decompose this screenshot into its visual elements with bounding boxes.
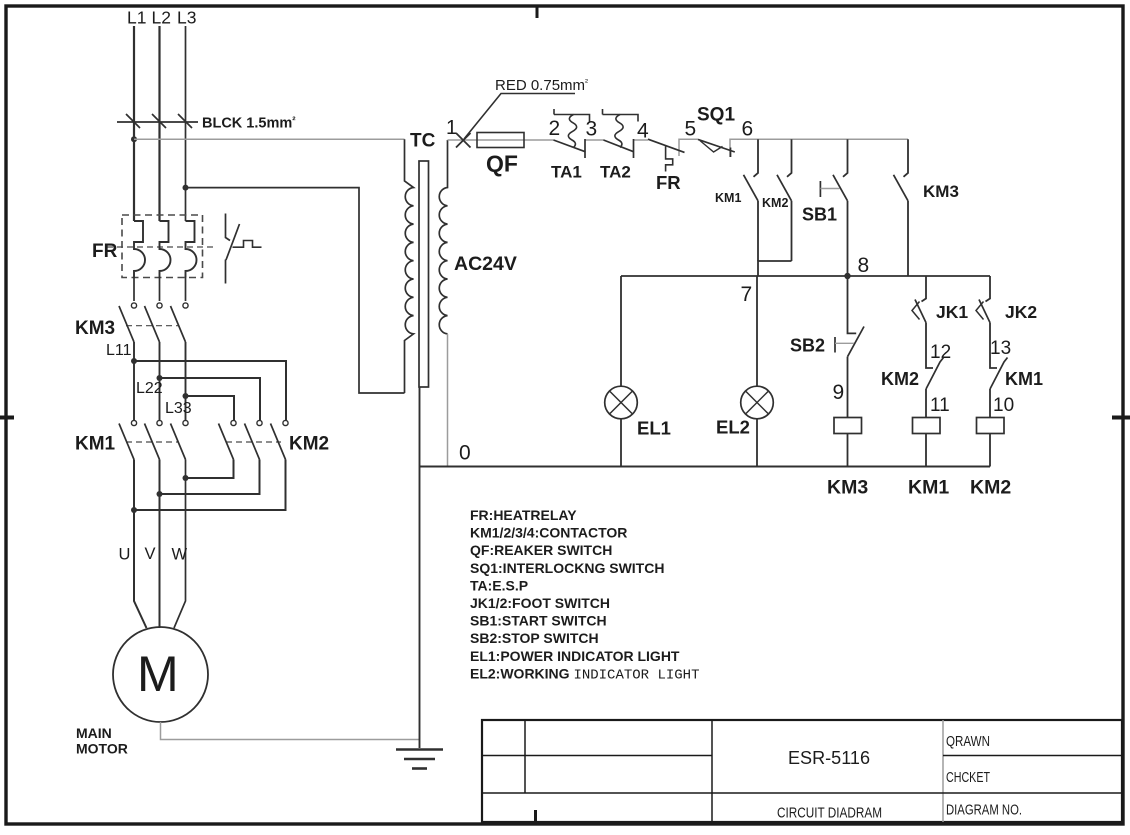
- wire L11 to KM2: [134, 361, 286, 421]
- svg-text:EL2:WORKING INDICATOR LIGHT: EL2:WORKING INDICATOR LIGHT: [470, 665, 699, 683]
- svg-text:SQ1:INTERLOCKNG SWITCH: SQ1:INTERLOCKNG SWITCH: [470, 560, 664, 576]
- svg-text:11: 11: [930, 395, 950, 416]
- node L3: [177, 8, 196, 28]
- wire L3 to TC primary: [186, 188, 405, 393]
- coil KM3: [827, 418, 868, 499]
- label QRAWN: [946, 734, 990, 750]
- svg-text:QRAWN: QRAWN: [946, 734, 990, 750]
- svg-text:KM3: KM3: [923, 182, 959, 201]
- svg-text:7: 7: [741, 283, 753, 306]
- breaker QF: [477, 133, 524, 177]
- svg-text:L11: L11: [106, 342, 132, 359]
- svg-text:EL1: EL1: [637, 418, 671, 439]
- pin 13: [990, 338, 1011, 359]
- svg-text:JK1/2:FOOT SWITCH: JK1/2:FOOT SWITCH: [470, 595, 610, 611]
- e-stop TA1: [551, 109, 590, 182]
- svg-text:FR: FR: [656, 172, 681, 193]
- label DIAGRAM NO.: [946, 802, 1022, 819]
- lamp EL2: [716, 276, 773, 467]
- svg-text:KM1: KM1: [908, 477, 949, 499]
- svg-text:5: 5: [685, 118, 697, 141]
- svg-text:BLCK 1.5mm²: BLCK 1.5mm²: [202, 116, 296, 132]
- thermal relay FR heaters: [92, 215, 217, 278]
- legend text: [470, 507, 699, 683]
- node L1: [127, 8, 146, 28]
- node L11: [106, 342, 137, 364]
- label W: [172, 546, 188, 564]
- contact KM1 NC: [990, 323, 1043, 389]
- svg-text:KM1: KM1: [715, 191, 741, 205]
- svg-text:TA:E.S.P: TA:E.S.P: [470, 577, 528, 593]
- svg-text:KM1: KM1: [1005, 369, 1043, 389]
- wire KM1 KM2 join: [758, 261, 792, 276]
- wire bus 7-8: [621, 275, 990, 277]
- wire phase L3: [185, 26, 187, 221]
- svg-text:L33: L33: [165, 400, 192, 417]
- stop switch SB2: [790, 276, 864, 418]
- svg-text:FR: FR: [92, 241, 118, 262]
- svg-text:KM2: KM2: [970, 477, 1011, 499]
- start switch SB1: [802, 139, 848, 276]
- wire KM2 output crossover V: [157, 460, 260, 498]
- title block: [482, 720, 1122, 822]
- transformer TC: [405, 131, 448, 394]
- wire W to motor: [174, 460, 186, 629]
- svg-text:CIRCUIT DIADRAM: CIRCUIT DIADRAM: [777, 806, 882, 822]
- svg-text:KM2: KM2: [289, 434, 329, 455]
- svg-text:3: 3: [586, 118, 598, 141]
- svg-text:10: 10: [993, 395, 1014, 416]
- svg-text:EL1:POWER INDICATOR LIGHT: EL1:POWER INDICATOR LIGHT: [470, 648, 680, 664]
- wire phase L1: [133, 26, 135, 221]
- cable marker BLCK 1.5mm2: [117, 114, 296, 132]
- svg-text:L2: L2: [152, 8, 171, 28]
- wire motor to ground: [161, 722, 420, 740]
- svg-text:4: 4: [637, 120, 649, 143]
- svg-text:KM3: KM3: [75, 318, 115, 339]
- e-stop TA2: [600, 109, 638, 182]
- svg-text:SB2:STOP SWITCH: SB2:STOP SWITCH: [470, 630, 599, 646]
- label MAIN MOTOR: [76, 725, 128, 757]
- ground: [396, 750, 443, 769]
- svg-text:MOTOR: MOTOR: [76, 741, 128, 757]
- contactor KM2 main contacts: [219, 420, 330, 459]
- junction L3: [183, 185, 189, 191]
- svg-text:12: 12: [930, 342, 951, 363]
- svg-text:SB2: SB2: [790, 336, 825, 356]
- svg-text:L22: L22: [136, 380, 163, 397]
- label V: [145, 545, 156, 563]
- wire U to motor: [134, 460, 147, 629]
- motor M: [113, 627, 208, 722]
- label CHCKET: [946, 770, 990, 786]
- svg-text:13: 13: [990, 338, 1011, 359]
- svg-text:L3: L3: [177, 8, 196, 28]
- svg-text:L1: L1: [127, 8, 146, 28]
- contact KM1 NO: [715, 139, 758, 261]
- contactor KM3 main contacts: [75, 278, 188, 421]
- pin 11: [930, 395, 950, 416]
- label ESR-5116: [788, 747, 870, 768]
- wire L1 to TC primary: [134, 138, 405, 140]
- coil KM2: [970, 389, 1011, 499]
- wire phase L2: [158, 26, 160, 221]
- svg-text:SB1:START SWITCH: SB1:START SWITCH: [470, 613, 607, 629]
- svg-text:JK2: JK2: [1005, 302, 1037, 322]
- svg-text:DIAGRAM NO.: DIAGRAM NO.: [946, 802, 1022, 819]
- label U: [119, 546, 131, 564]
- wire TC secondary to 0 bus: [447, 334, 449, 467]
- svg-text:1: 1: [446, 117, 457, 139]
- wire 0 bus: [420, 466, 991, 468]
- label RED 0.75mm2: [464, 77, 588, 139]
- svg-text:KM3: KM3: [827, 477, 868, 499]
- svg-text:RED 0.75mm²: RED 0.75mm²: [495, 77, 588, 94]
- pin 4: [637, 120, 649, 143]
- svg-text:AC24V: AC24V: [454, 253, 517, 275]
- svg-text:MAIN: MAIN: [76, 725, 112, 741]
- pin 9: [833, 381, 845, 404]
- label CIRCUIT DIADRAM: [777, 806, 882, 822]
- svg-text:2: 2: [549, 117, 561, 140]
- pin 2: [549, 117, 561, 140]
- node L33: [165, 393, 192, 417]
- ground wire: [419, 387, 421, 748]
- node L2: [152, 8, 171, 28]
- wire KM2 output crossover W: [183, 460, 234, 482]
- node 7: [741, 283, 753, 306]
- junction L1: [131, 136, 137, 142]
- svg-text:CHCKET: CHCKET: [946, 770, 990, 786]
- svg-text:6: 6: [742, 118, 754, 141]
- svg-text:ESR-5116: ESR-5116: [788, 747, 870, 768]
- wire KM2 output crossover U: [131, 460, 286, 514]
- pin 10: [993, 395, 1014, 416]
- svg-text:W: W: [172, 546, 188, 564]
- foot switch JK1: [912, 276, 968, 323]
- svg-text:TA2: TA2: [600, 163, 631, 182]
- FR aux contact: [226, 214, 262, 284]
- svg-text:KM2: KM2: [881, 369, 919, 389]
- lamp EL1: [605, 276, 671, 467]
- wire L22 to KM2: [160, 378, 261, 421]
- svg-text:TA1: TA1: [551, 163, 582, 182]
- node 0: [459, 442, 471, 465]
- svg-text:SQ1: SQ1: [697, 105, 735, 126]
- label AC24V: [454, 253, 517, 275]
- svg-text:QF: QF: [486, 151, 518, 177]
- svg-text:V: V: [145, 545, 156, 563]
- pin 5: [685, 118, 697, 141]
- svg-text:KM1/2/3/4:CONTACTOR: KM1/2/3/4:CONTACTOR: [470, 525, 627, 541]
- svg-text:SB1: SB1: [802, 205, 837, 225]
- pin 12: [930, 342, 951, 363]
- svg-text:9: 9: [833, 381, 845, 404]
- foot switch JK2: [976, 276, 1037, 323]
- svg-text:TC: TC: [410, 131, 436, 152]
- node 1 fuse link: [446, 117, 471, 148]
- pin 6: [742, 118, 754, 141]
- svg-text:M: M: [137, 646, 179, 702]
- contact FR NC: [648, 139, 685, 193]
- svg-text:0: 0: [459, 442, 471, 465]
- contact KM2 NC: [881, 323, 944, 389]
- contactor KM1 main contacts: [75, 420, 188, 459]
- interlock switch SQ1: [697, 105, 735, 158]
- svg-text:JK1: JK1: [936, 302, 968, 322]
- wire control main line: [448, 139, 909, 157]
- svg-text:FR:HEATRELAY: FR:HEATRELAY: [470, 507, 577, 523]
- wire V to motor: [159, 460, 161, 629]
- coil KM1: [908, 389, 949, 499]
- svg-text:KM2: KM2: [762, 196, 788, 210]
- svg-text:8: 8: [858, 254, 870, 277]
- pin 3: [586, 118, 598, 141]
- contact KM2 NO: [762, 139, 792, 261]
- svg-text:U: U: [119, 546, 131, 564]
- svg-text:EL2: EL2: [716, 417, 750, 438]
- node 8: [844, 254, 869, 279]
- svg-text:QF:REAKER SWITCH: QF:REAKER SWITCH: [470, 542, 612, 558]
- contact KM3 NO: [894, 139, 959, 276]
- node L22: [136, 375, 163, 397]
- wire L33 to KM2: [186, 396, 235, 421]
- svg-text:KM1: KM1: [75, 434, 116, 455]
